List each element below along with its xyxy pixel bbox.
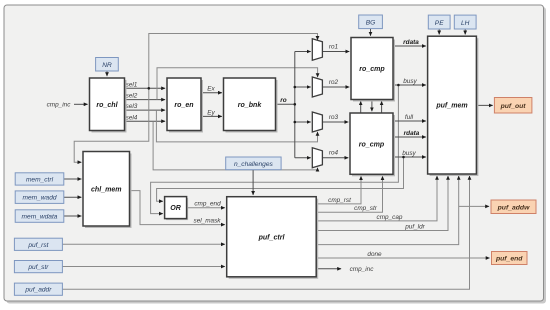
svg-text:ro1: ro1	[329, 43, 339, 50]
wire puf_addr to puf_mem	[62, 176, 469, 289]
port LH	[454, 15, 476, 29]
wire busy upper with OR branch	[151, 78, 426, 214]
wire ro1	[322, 43, 349, 51]
svg-text:BG: BG	[366, 19, 376, 26]
wire rdata lower	[393, 130, 426, 137]
svg-text:Ex: Ex	[207, 86, 215, 93]
svg-text:OR: OR	[170, 205, 181, 212]
gate OR	[165, 197, 189, 221]
mux4	[312, 148, 322, 168]
svg-text:busy: busy	[402, 150, 416, 157]
wire busy lower with OR branch	[157, 150, 426, 201]
port mem_ctrl	[15, 173, 64, 185]
svg-text:Ey: Ey	[207, 109, 215, 116]
wire ro3	[322, 114, 348, 122]
svg-text:rdata: rdata	[403, 39, 419, 46]
svg-text:cmp_rst: cmp_rst	[328, 197, 351, 204]
port puf_end	[492, 252, 528, 265]
block chl_mem	[83, 152, 132, 229]
svg-text:sel3: sel3	[126, 103, 138, 110]
junction dot sel1	[148, 87, 151, 90]
svg-text:ro: ro	[280, 97, 286, 104]
wire puf_ldr	[316, 176, 448, 231]
port mem_wdata	[15, 210, 64, 223]
svg-text:done: done	[367, 251, 382, 258]
wire PE to puf_mem	[438, 29, 440, 34]
port n_challenges	[226, 157, 281, 170]
svg-text:ro_bnk: ro_bnk	[238, 102, 263, 109]
wire n_challenges to puf_ctrl	[252, 170, 254, 195]
wire ro bus	[276, 52, 311, 158]
wire select route sel4 to mux4	[153, 121, 317, 170]
svg-text:puf_str: puf_str	[27, 264, 49, 271]
wire cmp_cap	[316, 176, 437, 221]
svg-text:ro2: ro2	[329, 79, 339, 86]
wire sel4	[125, 114, 166, 121]
port puf_out	[494, 98, 532, 114]
svg-text:puf_ctrl: puf_ctrl	[258, 234, 286, 241]
wire select route sel1 to mux1	[149, 34, 318, 89]
svg-text:ro3: ro3	[329, 114, 339, 121]
port BG	[359, 15, 383, 29]
svg-text:sel2: sel2	[126, 93, 138, 100]
port puf_addw	[491, 200, 536, 214]
block puf_ctrl	[227, 197, 319, 279]
block ro_cmp upper	[351, 38, 395, 102]
wire feedback to chl_mem	[74, 88, 149, 162]
wire rdata upper	[393, 39, 426, 46]
port PE	[428, 15, 450, 29]
svg-text:cmp_str: cmp_str	[354, 205, 378, 212]
svg-text:chl_mem: chl_mem	[91, 186, 122, 193]
port NR	[96, 58, 119, 72]
wire Ex	[201, 86, 222, 93]
wire mem_wadd to chl_mem	[64, 196, 82, 198]
wire select route sel2 to mux2	[157, 68, 318, 100]
wire sel2	[125, 93, 166, 100]
mux3	[312, 112, 322, 132]
wire mem_ctrl to chl_mem	[64, 178, 82, 180]
wire cmp_str	[316, 176, 382, 212]
svg-text:cmp_cap: cmp_cap	[377, 214, 403, 221]
svg-text:ro_en: ro_en	[174, 102, 194, 109]
svg-text:puf_rst: puf_rst	[27, 242, 49, 249]
wire puf_mem to puf_out	[476, 104, 492, 106]
svg-text:rdata: rdata	[404, 130, 420, 137]
wire sel_mask from chl_mem to puf_ctrl	[130, 191, 225, 225]
wire select route sel3 to mux3	[156, 110, 317, 142]
svg-text:mem_wadd: mem_wadd	[22, 195, 56, 202]
wire full	[393, 114, 426, 121]
mux2	[312, 77, 322, 97]
svg-text:NR: NR	[102, 62, 112, 69]
wire LH to puf_mem	[464, 29, 466, 34]
svg-text:full: full	[405, 114, 414, 121]
svg-text:sel4: sel4	[126, 114, 138, 121]
mux1	[312, 39, 322, 61]
svg-text:puf_mem: puf_mem	[435, 103, 467, 110]
wire ro2	[322, 79, 349, 87]
wire cmp_inc output	[316, 266, 374, 273]
svg-text:cmp_end: cmp_end	[194, 200, 221, 207]
block ro_cmp lower	[350, 113, 395, 176]
svg-text:puf_ldr: puf_ldr	[404, 223, 425, 230]
svg-text:ro_cmp: ro_cmp	[359, 141, 385, 148]
svg-text:ro_cmp: ro_cmp	[359, 66, 385, 73]
wire mem_wdata to chl_mem	[64, 215, 82, 217]
svg-text:mem_ctrl: mem_ctrl	[26, 176, 54, 183]
svg-text:busy: busy	[403, 78, 417, 85]
block ro_bnk	[224, 78, 278, 133]
svg-text:mem_wdata: mem_wdata	[22, 214, 58, 221]
wire cmp_end from OR to puf_ctrl	[187, 200, 225, 207]
svg-text:sel1: sel1	[126, 81, 138, 88]
wire Ey	[201, 109, 222, 116]
svg-text:puf_addr: puf_addr	[24, 287, 52, 294]
svg-text:sel_mask: sel_mask	[194, 217, 222, 224]
wire puf_str to puf_ctrl	[62, 266, 225, 268]
svg-text:puf_addw: puf_addw	[497, 204, 530, 211]
svg-text:n_challenges: n_challenges	[234, 161, 274, 168]
svg-text:cmp_inc: cmp_inc	[350, 266, 375, 273]
wire sel3	[125, 103, 166, 110]
svg-text:ro4: ro4	[329, 150, 339, 157]
wire BG to ro_cmp	[370, 29, 372, 36]
svg-text:PE: PE	[435, 20, 444, 27]
wire ro4	[322, 150, 348, 158]
wire address route to puf_mem and puf_addw	[316, 176, 489, 245]
wire cmp_rst	[316, 176, 361, 204]
port puf_addr	[14, 283, 62, 295]
wire inter ro_cmp arrows	[361, 100, 382, 114]
wire NR to ro_chl	[106, 71, 108, 76]
svg-text:cmp_inc: cmp_inc	[47, 102, 72, 109]
port mem_wadd	[15, 191, 64, 204]
wire sel1	[125, 81, 166, 88]
wire puf_rst to puf_ctrl	[62, 243, 225, 245]
port puf_str	[14, 261, 62, 273]
wire cmp_inc input to ro_chl	[47, 102, 88, 109]
svg-text:ro_chl: ro_chl	[96, 102, 118, 109]
svg-text:puf_end: puf_end	[495, 256, 523, 263]
block ro_en	[167, 78, 203, 133]
wire done to puf_end	[316, 251, 489, 258]
port puf_rst	[14, 238, 62, 250]
block puf_mem	[428, 36, 479, 176]
block ro_chl	[90, 78, 127, 133]
svg-text:puf_out: puf_out	[500, 103, 527, 110]
svg-text:LH: LH	[461, 20, 470, 27]
